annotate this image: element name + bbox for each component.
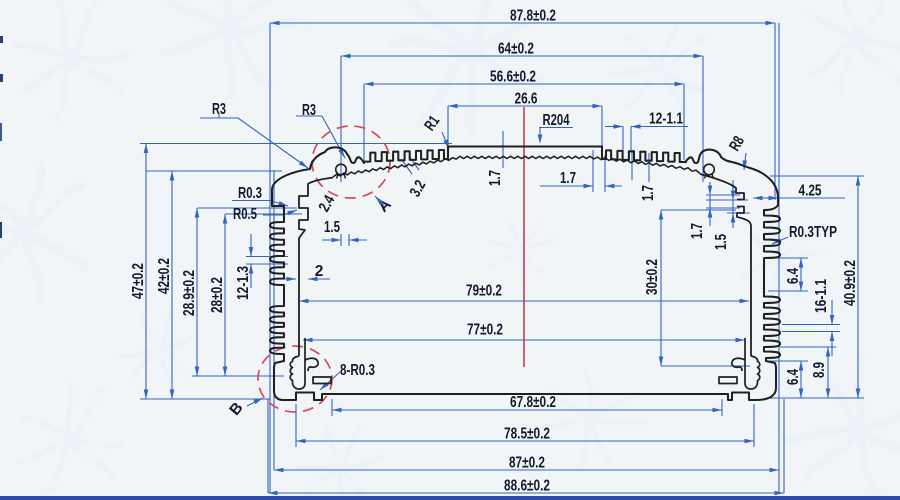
svg-text:6.4: 6.4 (785, 369, 802, 385)
svg-text:28±0.2: 28±0.2 (209, 277, 226, 313)
svg-text:4.25: 4.25 (799, 183, 822, 200)
svg-text:40.9±0.2: 40.9±0.2 (842, 260, 859, 306)
svg-text:47±0.2: 47±0.2 (130, 263, 147, 299)
svg-text:1.7: 1.7 (689, 223, 706, 239)
svg-text:1.7: 1.7 (640, 185, 657, 201)
svg-text:12-1.1: 12-1.1 (649, 111, 683, 128)
svg-text:1.7: 1.7 (560, 170, 576, 187)
svg-text:64±0.2: 64±0.2 (498, 41, 534, 58)
svg-text:1.5: 1.5 (713, 234, 730, 250)
svg-text:8-R0.3: 8-R0.3 (340, 362, 375, 379)
svg-text:1.7: 1.7 (487, 170, 504, 186)
svg-text:42±0.2: 42±0.2 (156, 258, 173, 294)
svg-text:56.6±0.2: 56.6±0.2 (490, 69, 536, 86)
svg-text:26.6: 26.6 (515, 91, 538, 108)
svg-text:28.9±0.2: 28.9±0.2 (181, 270, 198, 316)
svg-text:R0.3TYP: R0.3TYP (789, 224, 837, 241)
svg-text:1.5: 1.5 (324, 219, 340, 236)
svg-text:30±0.2: 30±0.2 (644, 259, 661, 295)
svg-text:R204: R204 (543, 112, 570, 129)
svg-text:87.8±0.2: 87.8±0.2 (510, 8, 556, 25)
svg-text:R0.5: R0.5 (233, 206, 257, 223)
svg-text:16-1.1: 16-1.1 (813, 279, 830, 313)
svg-text:88.6±0.2: 88.6±0.2 (504, 478, 550, 495)
svg-text:67.8±0.2: 67.8±0.2 (510, 394, 556, 411)
svg-text:78.5±0.2: 78.5±0.2 (504, 426, 550, 443)
svg-text:R0.3: R0.3 (238, 185, 262, 202)
svg-text:8.9: 8.9 (811, 362, 828, 378)
svg-text:87±0.2: 87±0.2 (509, 455, 545, 472)
svg-text:77±0.2: 77±0.2 (467, 322, 503, 339)
svg-text:79±0.2: 79±0.2 (466, 283, 502, 300)
